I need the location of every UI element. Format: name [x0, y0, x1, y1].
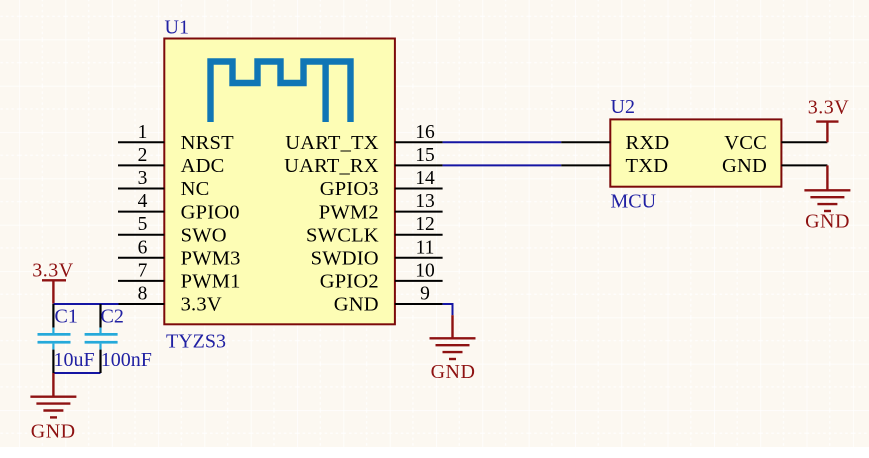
- svg-text:10uF: 10uF: [54, 349, 95, 371]
- capacitor C1 10uF: [38, 304, 71, 373]
- IC U1 body: [164, 39, 395, 325]
- pin 4 GPIO0: [118, 191, 240, 223]
- pin 16 UART_TX: [285, 122, 442, 154]
- svg-text:9: 9: [420, 284, 430, 305]
- svg-text:C1: C1: [55, 306, 78, 328]
- ground GND at U2: [804, 165, 850, 211]
- svg-text:SWO: SWO: [181, 224, 227, 246]
- svg-text:U1: U1: [165, 17, 189, 39]
- svg-text:MCU: MCU: [611, 191, 657, 213]
- U2 pin GND: [722, 155, 827, 177]
- svg-text:15: 15: [415, 145, 435, 166]
- svg-text:3.3V: 3.3V: [181, 294, 222, 316]
- svg-text:14: 14: [415, 168, 435, 189]
- U2 pin RXD: [561, 132, 669, 154]
- svg-text:100nF: 100nF: [101, 349, 152, 371]
- svg-text:3: 3: [138, 168, 148, 189]
- svg-text:SWDIO: SWDIO: [311, 248, 379, 270]
- pin 6 PWM3: [118, 237, 241, 269]
- svg-text:RXD: RXD: [626, 132, 670, 154]
- svg-text:TYZS3: TYZS3: [166, 331, 226, 353]
- wire pin9 to ground: [443, 304, 453, 315]
- pin 14 GPIO3: [320, 168, 443, 200]
- svg-text:PWM3: PWM3: [181, 248, 241, 270]
- pin 10 GPIO2: [320, 260, 443, 292]
- svg-text:6: 6: [138, 237, 148, 258]
- svg-text:PWM2: PWM2: [319, 201, 379, 223]
- svg-text:ADC: ADC: [181, 155, 225, 177]
- capacitor C2 100nF: [85, 304, 118, 373]
- power 3.3V at U2 VCC: [816, 122, 838, 143]
- power 3.3V rail left: [42, 280, 66, 304]
- svg-text:8: 8: [138, 284, 148, 305]
- pin 15 UART_RX: [284, 145, 443, 177]
- U2 pin TXD: [561, 155, 668, 177]
- svg-text:GPIO3: GPIO3: [320, 178, 379, 200]
- svg-text:11: 11: [416, 237, 435, 258]
- svg-text:1: 1: [138, 122, 148, 143]
- svg-text:UART_TX: UART_TX: [285, 132, 379, 154]
- svg-text:2: 2: [138, 145, 148, 166]
- svg-text:NC: NC: [181, 178, 210, 200]
- pin 2 ADC: [118, 145, 224, 177]
- svg-text:13: 13: [415, 191, 435, 212]
- svg-text:12: 12: [415, 214, 435, 235]
- pin 13 PWM2: [319, 191, 443, 223]
- svg-text:7: 7: [138, 260, 148, 281]
- svg-text:4: 4: [138, 191, 148, 212]
- U2 pin VCC: [724, 132, 827, 154]
- svg-text:GND: GND: [31, 420, 76, 442]
- svg-text:GPIO0: GPIO0: [181, 201, 240, 223]
- pin 7 PWM1: [118, 260, 241, 292]
- svg-text:UART_RX: UART_RX: [284, 155, 379, 177]
- svg-text:VCC: VCC: [724, 132, 767, 154]
- ground GND bottom left: [30, 373, 76, 417]
- antenna symbol inside U1: [211, 62, 351, 123]
- wire UART_RX (U1 pin15 to U2 TXD): [443, 164, 562, 166]
- pin 11 SWDIO: [311, 237, 443, 269]
- svg-text:3.3V: 3.3V: [808, 97, 850, 119]
- IC U2 body: [610, 119, 781, 186]
- wire capacitor bottom bus: [53, 372, 100, 374]
- pin 1 NRST: [118, 122, 234, 154]
- svg-text:NRST: NRST: [181, 132, 234, 154]
- pin 12 SWCLK: [306, 214, 443, 246]
- svg-text:GPIO2: GPIO2: [320, 271, 379, 293]
- pin 9 GND: [334, 284, 443, 316]
- ground GND at U1 pin 9: [430, 315, 476, 359]
- pin 3 NC: [118, 168, 209, 200]
- svg-text:GND: GND: [805, 211, 850, 233]
- svg-text:C2: C2: [101, 306, 124, 328]
- svg-text:GND: GND: [722, 155, 767, 177]
- svg-text:10: 10: [415, 260, 435, 281]
- svg-text:SWCLK: SWCLK: [306, 224, 379, 246]
- wire 3.3V rail to pin 8: [53, 303, 118, 305]
- svg-text:GND: GND: [334, 294, 379, 316]
- svg-text:5: 5: [138, 214, 148, 235]
- svg-text:16: 16: [415, 122, 435, 143]
- svg-text:3.3V: 3.3V: [32, 260, 74, 282]
- wire UART_TX (U1 pin16 to U2 RXD): [443, 141, 562, 143]
- svg-text:U2: U2: [611, 96, 635, 118]
- pin 8 3.3V: [118, 284, 222, 316]
- pin 5 SWO: [118, 214, 227, 246]
- svg-text:TXD: TXD: [626, 155, 669, 177]
- svg-text:PWM1: PWM1: [181, 271, 241, 293]
- svg-text:GND: GND: [431, 361, 476, 383]
